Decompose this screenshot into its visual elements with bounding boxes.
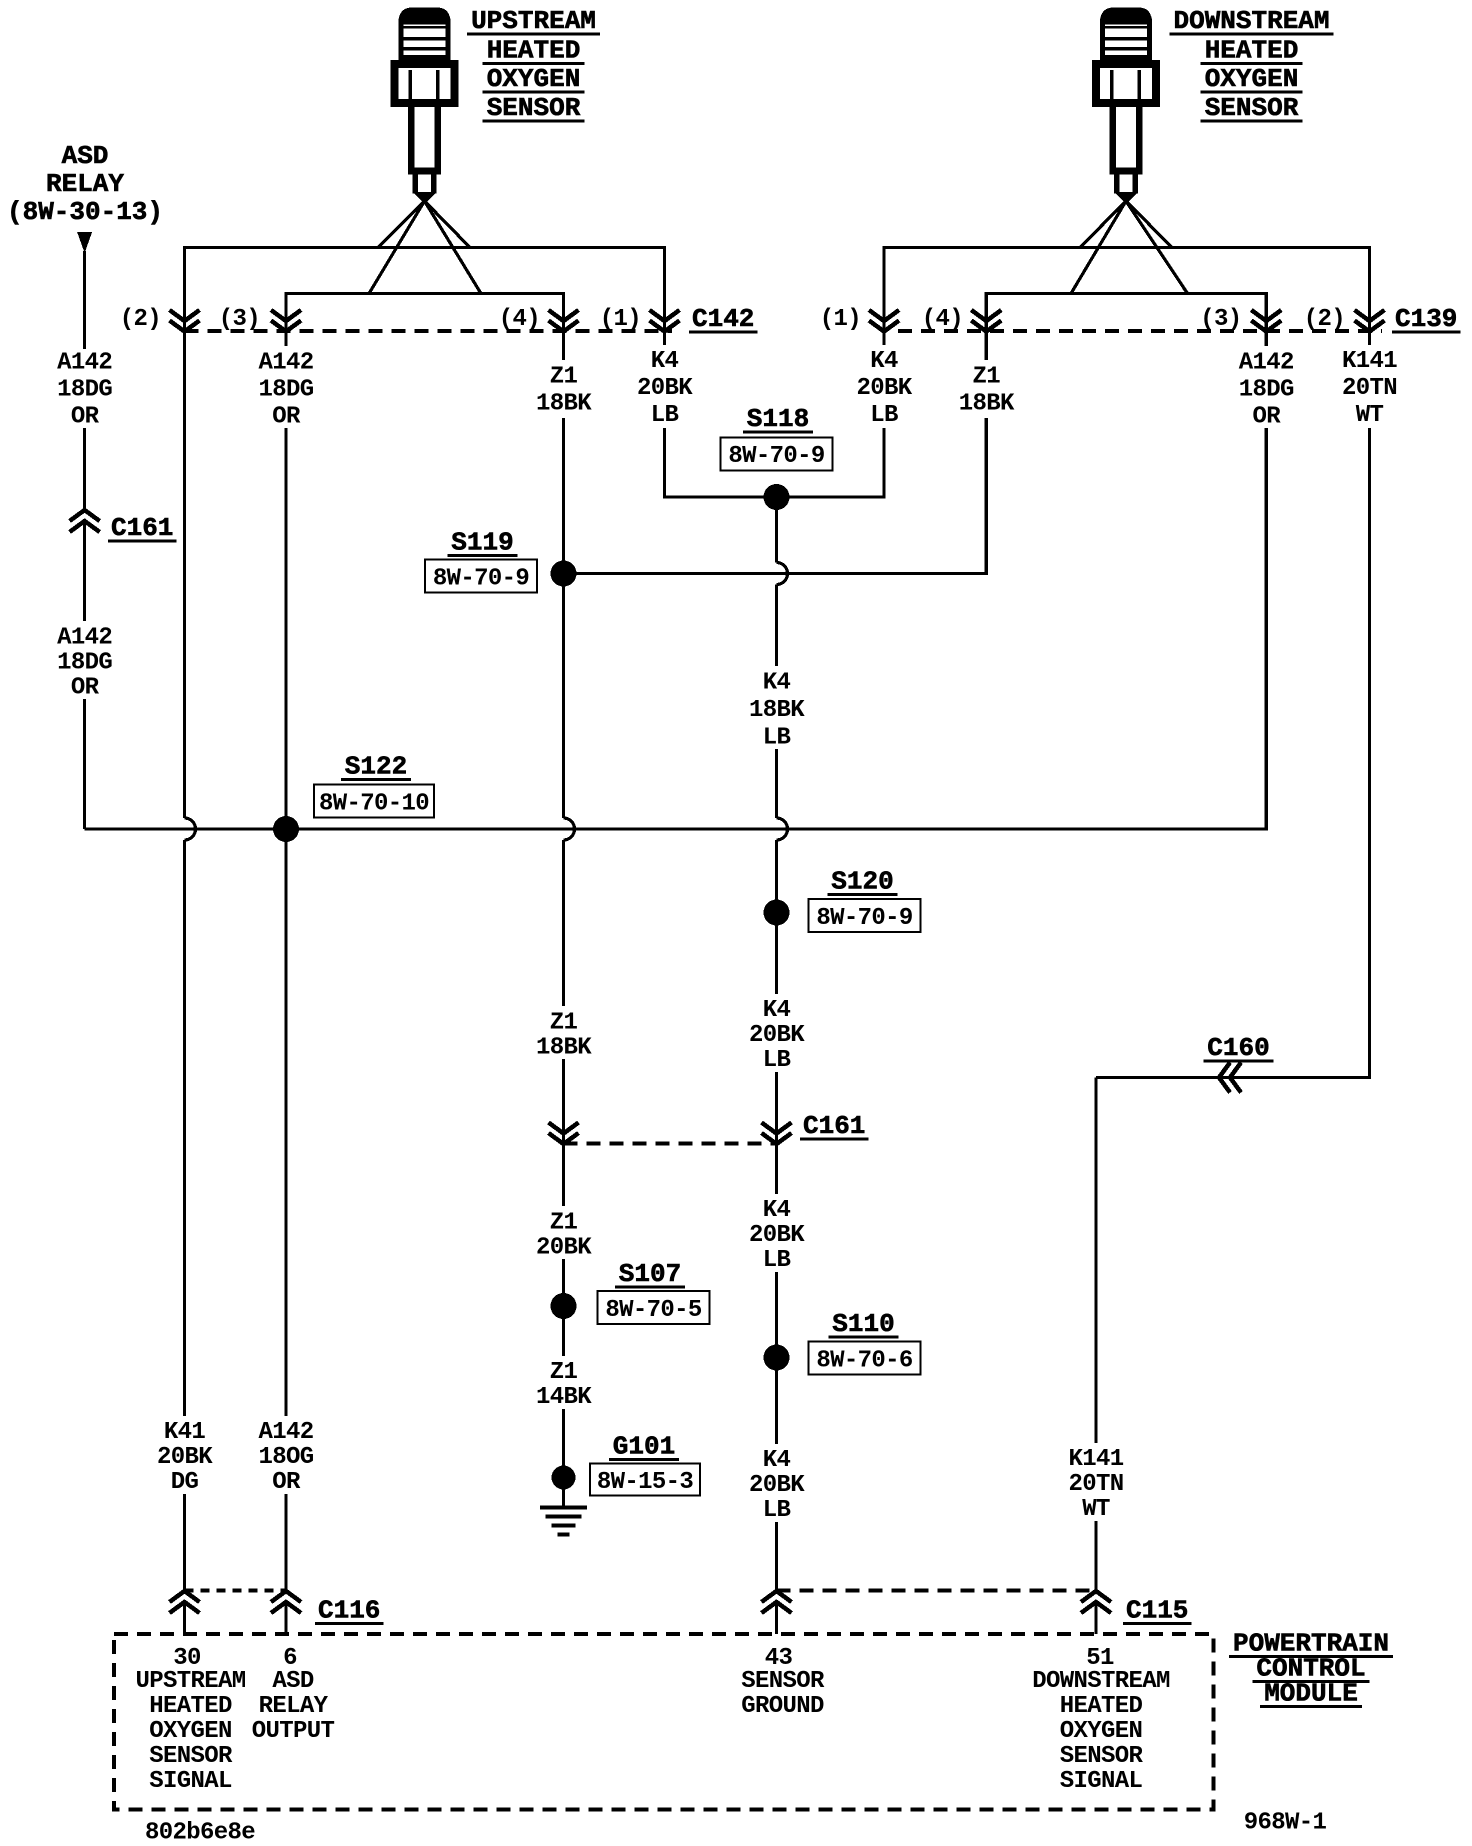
wire pin3 vertical through S122 dot xyxy=(284,331,287,346)
svg-text:(2): (2) xyxy=(120,306,161,333)
svg-text:Z1: Z1 xyxy=(550,1210,578,1237)
connector C139 dashed line xyxy=(898,329,1382,333)
svg-text:A142: A142 xyxy=(258,1419,313,1446)
svg-text:OR: OR xyxy=(71,404,100,431)
svg-text:OR: OR xyxy=(272,404,301,431)
svg-text:(3): (3) xyxy=(219,306,260,333)
svg-text:OR: OR xyxy=(1253,404,1282,431)
svg-text:(4): (4) xyxy=(499,306,540,333)
wire upstream outer rail (pins 2-1) xyxy=(185,248,665,332)
svg-text:LB: LB xyxy=(763,725,791,752)
svg-text:18BK: 18BK xyxy=(536,391,592,418)
pin 51 connector C115 xyxy=(1081,1591,1111,1602)
svg-text:K4: K4 xyxy=(763,1447,791,1474)
svg-text:20BK: 20BK xyxy=(637,375,693,402)
svg-text:18BK: 18BK xyxy=(536,1035,592,1062)
svg-text:UPSTREAM: UPSTREAM xyxy=(471,6,596,36)
svg-text:ASD: ASD xyxy=(62,141,109,171)
wire K141 (C160 down to C115) xyxy=(1094,1078,1097,1444)
wire downstream outer rail (pins 1-2) xyxy=(884,248,1370,332)
svg-text:SENSOR: SENSOR xyxy=(487,93,581,123)
svg-text:SENSOR: SENSOR xyxy=(149,1743,233,1770)
svg-text:8W-70-9: 8W-70-9 xyxy=(816,905,912,932)
wire pin3 lower segment xyxy=(284,1494,287,1591)
wire pin2 lower segment xyxy=(183,1494,186,1591)
svg-text:8W-15-3: 8W-15-3 xyxy=(597,1469,694,1496)
svg-text:18OG: 18OG xyxy=(258,1444,313,1471)
svg-text:S122: S122 xyxy=(345,752,407,782)
svg-text:LB: LB xyxy=(870,402,898,429)
svg-text:C115: C115 xyxy=(1126,1596,1188,1626)
svg-text:K4: K4 xyxy=(651,348,679,375)
svg-text:DOWNSTREAM: DOWNSTREAM xyxy=(1173,6,1329,36)
svg-text:C139: C139 xyxy=(1395,304,1457,334)
wire K4 20BK LB (S120 to C161) xyxy=(775,913,778,995)
svg-text:(2): (2) xyxy=(1304,306,1345,333)
connector C116 dashed line xyxy=(185,1589,287,1593)
wire fan from upstream sensor xyxy=(378,201,425,248)
wire S122 horizontal (A142) xyxy=(85,428,1267,829)
wire K4 20BK LB (C161 to S110) xyxy=(775,1144,778,1195)
svg-text:S110: S110 xyxy=(832,1309,894,1339)
wire Z1 S119 to downstream pin4 xyxy=(564,418,987,574)
wire ASD relay to C161 xyxy=(83,251,86,349)
svg-text:S118: S118 xyxy=(747,404,809,434)
svg-text:SENSOR: SENSOR xyxy=(741,1668,825,1695)
svg-text:GROUND: GROUND xyxy=(741,1693,824,1720)
svg-text:OUTPUT: OUTPUT xyxy=(252,1718,335,1745)
svg-text:8W-70-5: 8W-70-5 xyxy=(605,1297,702,1324)
svg-text:LB: LB xyxy=(651,402,679,429)
svg-text:SIGNAL: SIGNAL xyxy=(1060,1768,1143,1795)
upstream heated oxygen sensor xyxy=(401,11,448,61)
svg-text:18DG: 18DG xyxy=(258,377,313,404)
svg-text:8W-70-6: 8W-70-6 xyxy=(816,1348,913,1375)
svg-text:K4: K4 xyxy=(870,348,898,375)
wire A142 below C161 to S122 corner xyxy=(83,522,86,622)
wire K4 18BK LB (S118 down to S120) xyxy=(775,497,778,563)
wire pin2 vertical with hop at S122 xyxy=(183,331,186,818)
svg-text:(3): (3) xyxy=(1200,306,1241,333)
wire fan from downstream sensor xyxy=(1080,201,1126,248)
svg-text:20TN: 20TN xyxy=(1068,1471,1123,1498)
wire K4 20BK LB (S110 to C115) xyxy=(775,1358,778,1445)
svg-text:K4: K4 xyxy=(763,1197,791,1224)
svg-text:14BK: 14BK xyxy=(536,1384,592,1411)
svg-text:A142: A142 xyxy=(57,350,112,377)
svg-text:Z1: Z1 xyxy=(973,364,1001,391)
svg-text:RELAY: RELAY xyxy=(259,1693,329,1720)
svg-text:S107: S107 xyxy=(619,1259,681,1289)
svg-text:K141: K141 xyxy=(1342,348,1397,375)
svg-text:HEATED: HEATED xyxy=(487,36,581,66)
svg-text:G101: G101 xyxy=(613,1432,675,1462)
svg-text:(4): (4) xyxy=(922,306,963,333)
svg-text:OR: OR xyxy=(71,675,100,702)
svg-text:ASD: ASD xyxy=(272,1668,314,1695)
svg-text:DG: DG xyxy=(171,1469,199,1496)
connector C115 dashed line xyxy=(777,1589,1097,1593)
svg-text:20BK: 20BK xyxy=(749,1472,805,1499)
pin Z1 at C161 xyxy=(549,1123,579,1134)
wire K141 from pin2 to C160 xyxy=(1368,331,1371,345)
svg-text:LB: LB xyxy=(763,1247,791,1274)
svg-text:20BK: 20BK xyxy=(749,1222,805,1249)
svg-text:WT: WT xyxy=(1356,402,1384,429)
svg-text:HEATED: HEATED xyxy=(1205,36,1299,66)
svg-text:K41: K41 xyxy=(164,1419,206,1446)
pin 30 connector C116 xyxy=(170,1591,200,1602)
ground symbol xyxy=(562,1478,565,1508)
svg-text:OXYGEN: OXYGEN xyxy=(149,1718,232,1745)
connector C161 dashed line (center) xyxy=(564,1142,777,1146)
svg-text:18BK: 18BK xyxy=(959,391,1015,418)
svg-text:18DG: 18DG xyxy=(57,377,112,404)
wire upstream inner rail (pins 3-4) xyxy=(286,294,564,332)
svg-text:K4: K4 xyxy=(763,997,791,1024)
svg-text:Z1: Z1 xyxy=(550,1359,578,1386)
svg-text:(1): (1) xyxy=(820,306,861,333)
svg-text:C161: C161 xyxy=(803,1111,865,1141)
connector C161 (left) xyxy=(70,510,100,521)
svg-text:DOWNSTREAM: DOWNSTREAM xyxy=(1032,1668,1170,1695)
wire K4 pins1 to S118 xyxy=(665,428,885,497)
svg-text:20BK: 20BK xyxy=(749,1022,805,1049)
svg-text:Z1: Z1 xyxy=(550,364,578,391)
wire Z1 20BK (C161 to S107) xyxy=(562,1144,565,1207)
wire Z1 14BK (S107 to G101) xyxy=(562,1306,565,1356)
svg-text:OXYGEN: OXYGEN xyxy=(487,64,581,94)
svg-text:C161: C161 xyxy=(111,513,173,543)
svg-text:WT: WT xyxy=(1082,1496,1110,1523)
arrow from ASD relay xyxy=(77,232,92,253)
svg-text:A142: A142 xyxy=(1239,350,1294,377)
svg-text:SENSOR: SENSOR xyxy=(1060,1743,1144,1770)
svg-text:(8W-30-13): (8W-30-13) xyxy=(7,197,163,227)
svg-text:8W-70-9: 8W-70-9 xyxy=(728,443,824,470)
pin 43 connector C115 xyxy=(762,1591,792,1602)
svg-text:18DG: 18DG xyxy=(57,650,112,677)
svg-text:8W-70-9: 8W-70-9 xyxy=(433,566,529,593)
wire downstream inner rail (pins 4-3) xyxy=(986,294,1266,332)
svg-text:OR: OR xyxy=(272,1469,301,1496)
svg-text:S120: S120 xyxy=(831,867,893,897)
svg-text:802b6e8e: 802b6e8e xyxy=(145,1820,255,1846)
svg-text:MODULE: MODULE xyxy=(1264,1679,1358,1709)
svg-text:HEATED: HEATED xyxy=(1060,1693,1143,1720)
svg-text:LB: LB xyxy=(763,1497,791,1524)
svg-text:OXYGEN: OXYGEN xyxy=(1205,64,1299,94)
svg-text:SENSOR: SENSOR xyxy=(1205,93,1299,123)
svg-text:20TN: 20TN xyxy=(1342,375,1397,402)
svg-text:LB: LB xyxy=(763,1047,791,1074)
svg-text:20BK: 20BK xyxy=(856,375,912,402)
wire Z1 (S119 down) with hop at S122 xyxy=(562,331,565,360)
svg-text:(1): (1) xyxy=(600,306,641,333)
svg-text:OXYGEN: OXYGEN xyxy=(1060,1718,1143,1745)
svg-text:20BK: 20BK xyxy=(536,1235,592,1262)
svg-text:18DG: 18DG xyxy=(1239,377,1294,404)
svg-text:K4: K4 xyxy=(763,670,791,697)
pin 6 connector C116 xyxy=(271,1591,301,1602)
pin K4 at C161 xyxy=(762,1123,792,1134)
downstream heated oxygen sensor xyxy=(1103,11,1150,61)
svg-text:HEATED: HEATED xyxy=(149,1693,232,1720)
svg-text:S119: S119 xyxy=(451,528,513,558)
svg-text:C116: C116 xyxy=(318,1596,380,1626)
svg-text:968W-1: 968W-1 xyxy=(1244,1810,1327,1837)
svg-text:K141: K141 xyxy=(1068,1446,1123,1473)
svg-text:18BK: 18BK xyxy=(749,697,805,724)
svg-text:RELAY: RELAY xyxy=(46,169,124,199)
svg-text:A142: A142 xyxy=(57,625,112,652)
svg-text:Z1: Z1 xyxy=(550,1010,578,1037)
svg-text:C142: C142 xyxy=(692,304,754,334)
svg-text:A142: A142 xyxy=(258,350,313,377)
svg-text:20BK: 20BK xyxy=(157,1444,213,1471)
svg-text:8W-70-10: 8W-70-10 xyxy=(319,791,429,818)
svg-text:UPSTREAM: UPSTREAM xyxy=(135,1668,245,1695)
svg-text:C160: C160 xyxy=(1207,1033,1269,1063)
powertrain control module box xyxy=(114,1634,1214,1810)
connector C142 dashed line xyxy=(185,329,673,333)
svg-text:SIGNAL: SIGNAL xyxy=(149,1768,232,1795)
